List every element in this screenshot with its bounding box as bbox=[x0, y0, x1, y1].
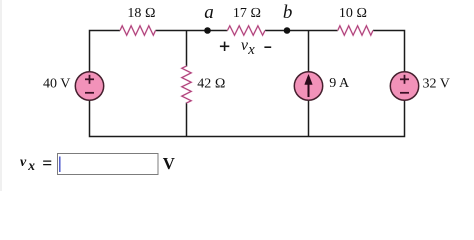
answer input box bbox=[58, 154, 159, 175]
svg-text:18 Ω: 18 Ω bbox=[127, 6, 155, 21]
svg-text:=: = bbox=[42, 153, 52, 173]
svg-text:V: V bbox=[163, 154, 175, 173]
wire: 9A branch upper bbox=[308, 31, 310, 72]
wire: top between 17ohm and 10ohm bbox=[265, 30, 338, 32]
plus polarity sign of vx bbox=[220, 42, 229, 51]
svg-text:x: x bbox=[27, 158, 35, 173]
wire: bottom middle bbox=[187, 136, 309, 138]
svg-text:40 V: 40 V bbox=[43, 76, 70, 91]
wire: top-right segment bbox=[373, 31, 405, 72]
voltage source V1 40V bbox=[75, 72, 103, 100]
resistor R4 42ohm vertical bbox=[182, 66, 191, 103]
wire: right bottom segment bbox=[309, 100, 405, 136]
node b dot bbox=[284, 27, 291, 34]
voltage source V2 32V bbox=[390, 72, 418, 100]
svg-text:42 Ω: 42 Ω bbox=[197, 77, 225, 92]
svg-text:b: b bbox=[283, 2, 293, 23]
wire: 42ohm branch upper bbox=[186, 31, 188, 67]
wire: top-left segment bbox=[90, 31, 121, 72]
wire: left bottom segment bbox=[90, 100, 187, 136]
node a dot bbox=[204, 27, 211, 34]
svg-text:10 Ω: 10 Ω bbox=[339, 6, 367, 21]
svg-text:9 A: 9 A bbox=[329, 76, 350, 91]
wire: 9A branch lower bbox=[308, 100, 310, 136]
svg-text:v: v bbox=[20, 155, 27, 170]
minus polarity sign of vx bbox=[264, 46, 271, 48]
input caret bbox=[59, 157, 61, 173]
svg-text:17 Ω: 17 Ω bbox=[233, 6, 261, 21]
resistor R1 18ohm bbox=[120, 26, 156, 35]
answer label vx = bbox=[20, 153, 52, 173]
current source I1 9A bbox=[294, 72, 322, 100]
svg-text:32 V: 32 V bbox=[423, 76, 450, 91]
resistor R2 17ohm bbox=[227, 26, 265, 35]
wire: 42ohm branch lower bbox=[186, 103, 188, 137]
resistor R3 10ohm bbox=[338, 26, 373, 35]
svg-text:a: a bbox=[204, 2, 214, 23]
label vx bbox=[241, 37, 255, 58]
svg-text:x: x bbox=[247, 42, 255, 58]
wire: top between 18ohm and 17ohm bbox=[156, 30, 228, 32]
faint page edge line bbox=[0, 0, 2, 191]
